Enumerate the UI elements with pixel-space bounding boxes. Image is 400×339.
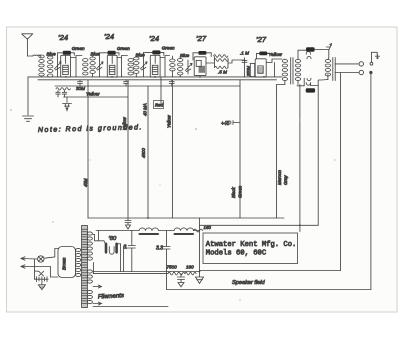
svg-text:40 MA: 40 MA: [143, 103, 148, 116]
RF transformer T1 primary: [39, 55, 44, 76]
capacitor C10: [62, 91, 66, 98]
scan speckles: [10, 109, 335, 300]
svg-text:.1 M: .1 M: [240, 51, 249, 56]
svg-text:30M: 30M: [76, 86, 85, 91]
plus arrow marker: [326, 44, 331, 50]
wire vertical x318: [317, 86, 319, 226]
rectifier V6 plate left: [105, 244, 108, 253]
wire T5 primary bottom: [277, 85, 285, 91]
svg-text:Yellow: Yellow: [269, 52, 283, 57]
variable capacitor stage 3: [140, 58, 147, 77]
wire B- rail B: [93, 273, 168, 275]
wire T6 to jack lower: [335, 73, 359, 78]
grid cap shield V5: [259, 52, 267, 56]
wire vertical x276: [276, 90, 278, 218]
tube V2 grid box: [109, 65, 115, 74]
svg-text:Red: Red: [155, 103, 164, 108]
tube V1 envelope: [61, 55, 71, 77]
wire B+ bus y230.5: [96, 230, 200, 232]
svg-text:160: 160: [204, 225, 212, 230]
svg-text:Gray: Gray: [283, 175, 288, 185]
power transformer core: [82, 226, 88, 308]
wire grid cap V1: [58, 53, 75, 58]
svg-text:Green: Green: [117, 46, 130, 51]
grid cap shield V3: [152, 50, 160, 54]
wire plate V3 to T4: [160, 56, 170, 77]
RF choke L1 winding: [304, 50, 321, 59]
tube V4 '27 envelope: [194, 57, 206, 76]
variable capacitor C7: [185, 60, 192, 74]
variable capacitor stage 2: [96, 58, 103, 77]
wire cathode bus H1: [28, 76, 282, 78]
svg-text:Black: Black: [231, 186, 236, 198]
svg-text:Yellow: Yellow: [167, 114, 172, 128]
wire T5 secondary top: [298, 50, 304, 57]
grid resistor R3 box: [250, 63, 254, 76]
switch X: [35, 271, 44, 276]
wire antenna lead: [27, 55, 33, 57]
svg-text:160: 160: [186, 265, 194, 270]
wire lower lead corner: [50, 267, 58, 278]
plate resistor R2: [215, 66, 229, 68]
svg-text:Green: Green: [238, 185, 243, 198]
wire vertical x88: [87, 80, 89, 218]
svg-text:’24: ’24: [149, 34, 159, 43]
speaker plug body: [372, 52, 380, 62]
title box: [203, 233, 298, 264]
bypass capacitor C11 with ground: [125, 218, 131, 229]
filter choke L3: [139, 228, 159, 231]
RF transformer T2 secondary: [90, 56, 95, 77]
wire vertical x240: [239, 80, 241, 218]
primary fuse loop: [58, 247, 76, 278]
jack terminal upper: [359, 62, 363, 66]
rectifier V6 plate right: [115, 244, 118, 253]
tube V4 grid box: [196, 60, 201, 66]
tube V3 grid box: [152, 65, 158, 74]
ground (line): [38, 282, 45, 290]
svg-text:250M: 250M: [245, 65, 250, 77]
resistor R4 30M: [56, 88, 70, 90]
wire CT tap: [92, 263, 94, 274]
audio transformer T5 secondary: [295, 58, 300, 85]
capacitor C14 with ground: [178, 274, 185, 287]
svg-text:Brown: Brown: [62, 257, 67, 270]
wire ground drop: [27, 77, 29, 115]
antenna: [22, 34, 33, 56]
tube V3 envelope: [150, 55, 160, 77]
tube V5 '27 envelope: [255, 59, 266, 77]
bypass capacitor C2: [78, 80, 83, 86]
RF transformer T1 secondary: [48, 55, 53, 77]
grid cap shield V1: [63, 51, 71, 55]
RF transformer T3 primary: [128, 59, 133, 76]
RF choke L1 core (top): [306, 47, 315, 51]
wire choke to transformer: [321, 50, 329, 58]
filter capacitor C12: [128, 231, 135, 272]
wire detector plate RC: [206, 57, 228, 68]
wire plate V1 to T2: [71, 56, 83, 77]
svg-text:+45: +45: [221, 121, 230, 127]
grid leak resistor R1: [214, 55, 229, 62]
variable capacitor stage 1: [54, 58, 61, 77]
AC lead lower with arrow: [21, 265, 50, 268]
AC plug lamp: [38, 256, 44, 262]
svg-text:Models 60, 60C: Models 60, 60C: [206, 249, 267, 257]
resistor R5 wavy: [194, 229, 203, 232]
RF transformer T4 secondary: [178, 57, 183, 77]
svg-text:’27: ’27: [196, 34, 207, 43]
grid cap shield V2: [108, 51, 116, 55]
svg-text:Blue: Blue: [180, 53, 190, 58]
wire rectifier leads down: [117, 244, 124, 272]
field resistor R6 7500: [168, 272, 185, 275]
svg-text:Blue: Blue: [47, 52, 57, 57]
svg-text:3.: 3.: [124, 245, 128, 251]
svg-text:Green: Green: [162, 46, 175, 51]
ground (bias network): [63, 97, 72, 111]
wire B- rail A: [93, 271, 199, 273]
svg-text:Maroon: Maroon: [277, 170, 282, 185]
bypass capacitor C4: [124, 80, 129, 86]
jack terminal lower: [359, 70, 363, 74]
RF transformer T4 primary: [170, 56, 175, 77]
power transformer HV secondary: [87, 232, 92, 260]
svg-text:’27: ’27: [256, 35, 267, 44]
bias tap +45: [231, 121, 240, 125]
wire field line: [200, 271, 341, 272]
choke L3 core: [140, 233, 159, 235]
tube V2 envelope: [107, 55, 117, 77]
wire lamp to loop top: [44, 249, 58, 259]
svg-text:Atwater Kent Mfg. Co.: Atwater Kent Mfg. Co.: [206, 241, 297, 249]
svg-text:Speaker field: Speaker field: [232, 280, 266, 286]
wire grid cap V3: [144, 52, 164, 58]
ground (antenna rod ground): [23, 116, 34, 121]
power switch vertical: [34, 259, 36, 279]
svg-text:.5 M: .5 M: [218, 70, 227, 75]
filter choke L4: [174, 228, 194, 231]
svg-text:Yellow: Yellow: [122, 116, 127, 130]
output choke L2 core (bottom): [306, 88, 315, 92]
wire stub x161: [156, 77, 161, 106]
RF transformer T2 primary: [83, 59, 88, 76]
resistor R7: [185, 272, 196, 275]
wire choke L2 leads: [297, 80, 328, 86]
wire vertical x370 (speaker return): [370, 74, 372, 290]
bypass capacitor C6: [169, 80, 174, 86]
svg-text:Blue: Blue: [91, 52, 101, 57]
wire vertical x199: [199, 218, 201, 272]
output choke L2 winding: [304, 78, 311, 86]
wire vertical x172: [171, 80, 173, 218]
svg-text:’80: ’80: [109, 236, 118, 242]
speaker plug lower contact: [370, 71, 372, 73]
wire bottom return: [167, 289, 371, 291]
audio transformer T5 primary: [282, 59, 287, 85]
tube V5 grid box: [258, 66, 263, 73]
wire grid cap V4: [193, 53, 211, 60]
line capacitor C15 ticks: [35, 277, 49, 282]
wire HV to rectifier: [93, 231, 105, 244]
ground (B-): [196, 272, 204, 284]
choke L4 core: [175, 233, 194, 235]
svg-text:Green: Green: [72, 46, 85, 51]
wire T6 to jack upper: [335, 63, 359, 65]
tube V4 cathode box: [199, 66, 205, 73]
wire to coupling cap: [228, 60, 244, 63]
wire bus y218: [88, 217, 284, 219]
power transformer primary: [76, 248, 81, 276]
tube V1 grid box: [63, 65, 69, 74]
output transformer T6 core: [333, 58, 335, 81]
rectifier V6 filament: [109, 247, 114, 255]
output transformer T6 primary: [325, 58, 330, 80]
svg-text:’24: ’24: [58, 33, 68, 42]
svg-text:3.3: 3.3: [156, 246, 163, 252]
filter capacitor C13: [163, 231, 170, 290]
svg-text:4800: 4800: [141, 148, 146, 158]
wire plate V2 to T3: [117, 56, 128, 77]
wire vertical x128: [127, 80, 129, 218]
RF transformer T3 secondary: [134, 56, 139, 77]
antenna series coil: [33, 55, 41, 57]
power transformer filament secondary: [87, 270, 92, 304]
grid cap shield V4: [198, 51, 206, 55]
AC lead upper with arrow: [21, 257, 37, 260]
svg-text:45M: 45M: [83, 178, 88, 187]
wire vertical x300: [299, 85, 301, 232]
wire screen bus H2: [55, 85, 240, 87]
svg-text:’24: ’24: [104, 32, 114, 41]
wire vertical x148: [147, 86, 149, 218]
coupling capacitor C8: [242, 58, 247, 77]
wire grid cap V2: [100, 53, 120, 58]
wire bus H1b: [38, 79, 277, 81]
wire vertical x340 (speaker field): [340, 77, 342, 271]
wire grid cap V5: [257, 53, 271, 58]
audio transformer T5 core: [291, 58, 293, 85]
wire plate V5 to T5: [266, 59, 282, 77]
capacitor C9: [56, 91, 60, 98]
svg-text:7500: 7500: [167, 265, 178, 270]
filament tap arrows: [93, 285, 168, 307]
speaker plug upper contact: [370, 62, 373, 65]
wire bus y226: [200, 224, 319, 226]
label Red boxed: [154, 101, 164, 109]
wire yellow line H3: [64, 96, 129, 98]
